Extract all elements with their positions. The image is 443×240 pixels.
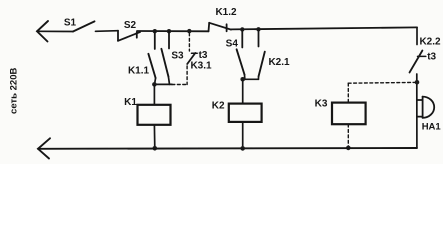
wire junction rail to K1 coil [153, 84, 155, 104]
wire dashed K3 coil top lead [347, 83, 349, 102]
node junction top of K3.1 dashed branch [187, 29, 191, 33]
switch S1 (blade) [73, 21, 95, 31]
svg-text:t3: t3 [427, 52, 436, 63]
node junction K3 at bottom bus [346, 146, 351, 151]
supply arrow top (left mains arrow) [37, 21, 48, 42]
svg-text:S2: S2 [124, 20, 137, 31]
wire K2 coil to bottom bus [242, 122, 244, 149]
wire dashed K3 coil bottom lead [347, 124, 349, 148]
switch S4 (stub, blade, foot) [237, 29, 245, 79]
wire K1 coil to bottom bus [153, 125, 155, 149]
svg-text:t3: t3 [199, 50, 208, 61]
node junction top of S4 branch [240, 27, 244, 31]
svg-text:HA1: HA1 [422, 122, 442, 133]
svg-text:K1.1: K1.1 [128, 66, 150, 77]
switch S2 (step, blade and tick) [118, 31, 140, 41]
relay coil K2 (box) [229, 104, 262, 122]
node junction rail to K1 coil [152, 82, 157, 87]
wire top bus S1 to S2 [96, 30, 119, 33]
wire top bus K1.2 to right corner [231, 27, 417, 29]
wire bottom bus [38, 147, 417, 150]
switch S3 (stub, blade, foot) [161, 31, 169, 84]
wire rail below K1.1/S3 [154, 83, 172, 85]
node junction K1 at bottom bus [153, 146, 158, 151]
svg-text:K1: K1 [124, 97, 137, 108]
wire top bus S2 to K1.2 [137, 30, 209, 32]
wire dashed horizontal K3 to right vertical [348, 81, 415, 84]
svg-text:K2: K2 [212, 101, 225, 112]
svg-text:K2.1: K2.1 [268, 57, 290, 68]
svg-text:S1: S1 [64, 17, 77, 28]
node junction top of S3 branch [167, 29, 171, 33]
contact K1.1 (stub, blade, foot) [148, 31, 155, 84]
svg-text:S3: S3 [171, 51, 184, 62]
svg-text:K1.2: K1.2 [215, 7, 237, 18]
wire rail to K2 coil [242, 79, 244, 103]
svg-text:S4: S4 [226, 38, 239, 49]
contact K2.2 (blade and t3 tick) [410, 51, 426, 73]
node junction top of K2.1 branch [256, 27, 260, 31]
contact K1.2 (step up, blade, tick) [209, 23, 232, 32]
svg-text:K3: K3 [315, 99, 328, 110]
wire top bus segment from arrow to S1 [37, 30, 73, 32]
svg-text:K3.1: K3.1 [190, 61, 212, 72]
bell HA1 (stubs, chord, arc) [417, 97, 434, 118]
wire rail below S4/K2.1 [243, 78, 259, 80]
node junction top of K1.1 branch [153, 29, 157, 33]
node junction rail to K2 coil [240, 77, 245, 82]
node junction right vertical with K3 dashed link [415, 80, 420, 85]
wire right vertical upper (corner down to K2.2) [416, 27, 418, 44]
relay coil K1 (box) [138, 105, 171, 125]
supply arrow bottom (left mains arrow) [38, 138, 50, 158]
wire right vertical lower (K2.2 to bottom bus, passes HA1) [416, 74, 418, 148]
svg-text:сеть 220В: сеть 220В [9, 68, 20, 114]
contact K2.1 (stub, blade, foot) [258, 29, 264, 79]
contact K3.1 (dashed stub, blade, t3 tick, dashed foot) [187, 33, 197, 85]
svg-text:K2.2: K2.2 [419, 37, 441, 48]
relay coil K3 (box) [332, 103, 366, 125]
wire dashed link rail to K3.1 [172, 84, 187, 86]
node junction K2 at bottom bus [240, 146, 245, 151]
